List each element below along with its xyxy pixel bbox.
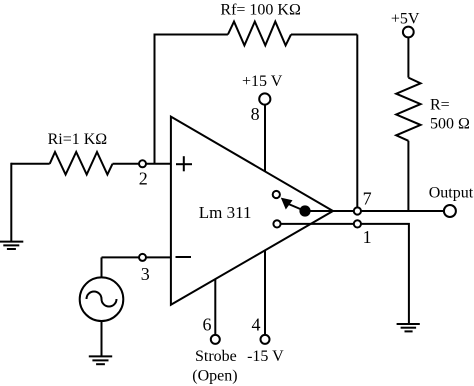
wire pin 8 [264,105,266,172]
op-amp U1 triangle [171,117,333,305]
wire feedback left vertical [154,35,156,164]
svg-text:Ri=1 KΩ: Ri=1 KΩ [48,131,108,148]
node 7 [354,207,361,214]
ground (left input) [0,242,23,249]
internal emitter node circle [273,220,280,227]
svg-text:R=: R= [430,97,450,114]
resistor Ri [50,152,113,175]
svg-text:8: 8 [251,104,260,124]
resistor Rf [228,22,291,46]
wire +5V vertical [407,37,409,77]
wire pin 6 [214,279,216,335]
wire source top vertical [101,257,103,277]
svg-text:4: 4 [252,314,261,334]
svg-text:2: 2 [139,169,148,189]
svg-text:3: 3 [141,264,150,284]
svg-text:Output: Output [429,184,474,201]
svg-text:500 Ω: 500 Ω [430,115,470,132]
+5V terminal [403,27,414,38]
wire feedback top right [291,34,357,36]
svg-text:-15 V: -15 V [247,348,284,365]
svg-text:Strobe: Strobe [195,348,237,365]
internal collector node circle [273,191,280,198]
internal arrow [281,198,305,211]
svg-text:Lm 311: Lm 311 [199,203,252,222]
resistor R [396,78,420,141]
node 3 [139,254,146,261]
wire source bottom vertical [101,321,103,356]
svg-text:1: 1 [363,227,372,247]
internal output dot [299,205,310,216]
svg-text:6: 6 [203,314,212,334]
ground (source) [89,356,112,364]
wire pin 1 line [281,224,409,324]
node 2 [139,160,146,167]
node 1 [354,220,361,227]
svg-text:(Open): (Open) [192,368,237,385]
wire feedback right vertical [356,35,358,212]
plus input symbol [176,156,192,171]
wire node 3 horizontal [102,256,171,258]
output terminal [444,205,456,217]
ground (pin 1) [397,324,420,331]
wire input left segment [11,163,49,165]
wire R to pin7 line [407,141,409,211]
source V1 sine generator [80,277,124,321]
svg-text:Rf= 100 KΩ: Rf= 100 KΩ [220,2,301,19]
pin 8 terminal [259,93,270,104]
wire left vertical to ground [10,163,12,242]
wire pin 4 [264,251,266,335]
svg-text:7: 7 [363,189,372,209]
svg-text:+15 V: +15 V [242,73,283,90]
pin 6 terminal [211,335,220,344]
pin 4 terminal [261,335,270,344]
svg-text:+5V: +5V [391,10,420,27]
minus input symbol [176,256,192,258]
wire feedback top left [154,34,228,36]
wire pin 7 output line [305,210,444,212]
wire Ri to node 2 [113,163,171,165]
